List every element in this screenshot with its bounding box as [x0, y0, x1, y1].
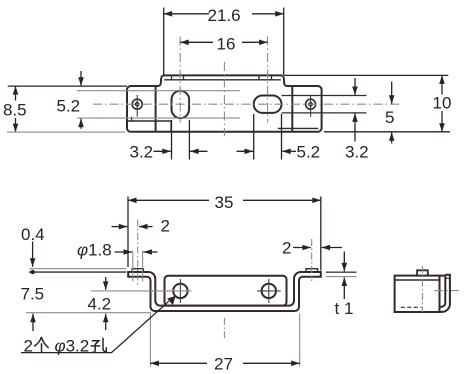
left hole vertical crosshair: [179, 279, 181, 303]
right extension line from strip top: [284, 74, 448, 76]
svg-text:10: 10: [433, 94, 452, 113]
right slot tangent lines extending right: [282, 96, 367, 113]
strip tick left pair: [172, 75, 184, 79]
dimension 4.2: [105, 277, 107, 330]
side view tab centerline: [421, 266, 423, 312]
hole centerline extension grey left: [91, 290, 192, 292]
dimension 8.5 left: [8, 86, 127, 132]
svg-text:35: 35: [215, 193, 234, 212]
inner bottom notch line left: [127, 117, 171, 132]
center web face rounded rect: [165, 276, 287, 306]
side view tab: [417, 270, 428, 275]
web bottom extension line grey: [26, 313, 300, 367]
strip tick right pair: [259, 75, 272, 79]
bracket inner profile: [128, 277, 321, 311]
svg-text:21.6: 21.6: [208, 6, 241, 25]
svg-text:3.2: 3.2: [130, 143, 154, 162]
dimension 5 right: [391, 82, 393, 144]
leader arrowhead: [167, 296, 175, 305]
surface reference line dark: [29, 271, 127, 273]
svg-text:5.2: 5.2: [297, 143, 321, 162]
left section divider: [155, 86, 157, 132]
svg-text:8.5: 8.5: [3, 101, 27, 120]
svg-text:16: 16: [217, 34, 236, 53]
dimension 3.2 right (slot width): [354, 78, 356, 142]
left locating tab: [132, 269, 143, 272]
svg-text:φ3.2: φ3.2: [55, 337, 90, 356]
left vertical slot: [172, 91, 190, 118]
right extension line from body bottom: [324, 131, 450, 133]
dimension phi1.8: [115, 251, 158, 253]
top view main body outline with raised rear strip: [127, 75, 322, 131]
right horizontal slot: [254, 96, 282, 113]
right locating tab: [306, 269, 318, 272]
left slot vertical centerline: [179, 37, 181, 123]
dimension 7.5: [32, 314, 34, 331]
horizontal centerline of top view: [93, 103, 399, 105]
right tab centerline: [311, 239, 313, 281]
CJK glyph: kong: [91, 338, 107, 352]
left screw hole vertical crosshair: [136, 95, 138, 117]
CJK glyph: ge: [34, 337, 48, 353]
side view top inner line: [395, 279, 440, 281]
right screw hole vertical crosshair: [310, 95, 312, 117]
leader note 2x phi3.2 holes: [21, 301, 169, 352]
right slot vertical centerline: [267, 37, 269, 123]
right screw hole: [306, 99, 316, 109]
svg-text:2: 2: [161, 217, 170, 236]
left slot tangent thin lines across body: [77, 91, 240, 118]
svg-text:φ1.8: φ1.8: [77, 241, 112, 260]
dimension 5.2 left (slot length): [80, 71, 82, 129]
dimension 2 right: [293, 247, 342, 249]
right mounting hole: [262, 284, 276, 298]
phi1.8 hole wall lines grey: [133, 251, 143, 282]
front view central centerline: [223, 318, 225, 338]
central vertical centerline: [223, 62, 225, 136]
bracket right end edge: [320, 271, 322, 278]
svg-text:4.2: 4.2: [88, 295, 112, 314]
inner bottom parallel line right: [278, 127, 318, 129]
svg-text:5: 5: [385, 108, 394, 127]
side view bent arm outer: [440, 275, 450, 312]
projection top reference line grey: [29, 268, 127, 270]
svg-text:2: 2: [282, 239, 291, 258]
svg-text:t 1: t 1: [335, 299, 354, 318]
dimension 5.2 bottom right (slot length): [237, 114, 297, 160]
dimension 21.6: [164, 8, 284, 76]
left screw hole: [132, 99, 142, 109]
side view main rect: [395, 276, 440, 312]
reference dot: [31, 270, 35, 274]
dimension 10 right: [441, 75, 443, 131]
svg-text:3.2: 3.2: [345, 143, 369, 162]
svg-text:27: 27: [214, 355, 233, 374]
bottom edge extension line grey left: [7, 131, 125, 133]
side view hidden line: [401, 306, 422, 308]
left tab centerline: [137, 220, 139, 286]
svg-text:2: 2: [24, 337, 33, 356]
dimension 3.2 bottom left (slot width): [154, 120, 208, 160]
dimension 16: [180, 41, 267, 43]
svg-text:5.2: 5.2: [57, 97, 81, 116]
bracket left end edge: [127, 271, 129, 278]
right hole crosshairs: [257, 279, 281, 303]
bracket outer profile: [128, 272, 321, 306]
svg-text:0.4: 0.4: [21, 225, 45, 244]
dimension t1: [326, 271, 357, 273]
strip inner bottom line: [164, 79, 281, 81]
side view arm tick: [445, 277, 450, 279]
right section divider: [291, 86, 293, 132]
side view horizontal centerline: [434, 290, 459, 292]
dimension 35: [128, 197, 321, 271]
left mounting hole: [173, 284, 187, 298]
dimension 0.4: [32, 242, 34, 267]
svg-text:7.5: 7.5: [21, 285, 45, 304]
dimension 27: [150, 362, 299, 364]
dimension 2 upper left: [112, 226, 153, 228]
